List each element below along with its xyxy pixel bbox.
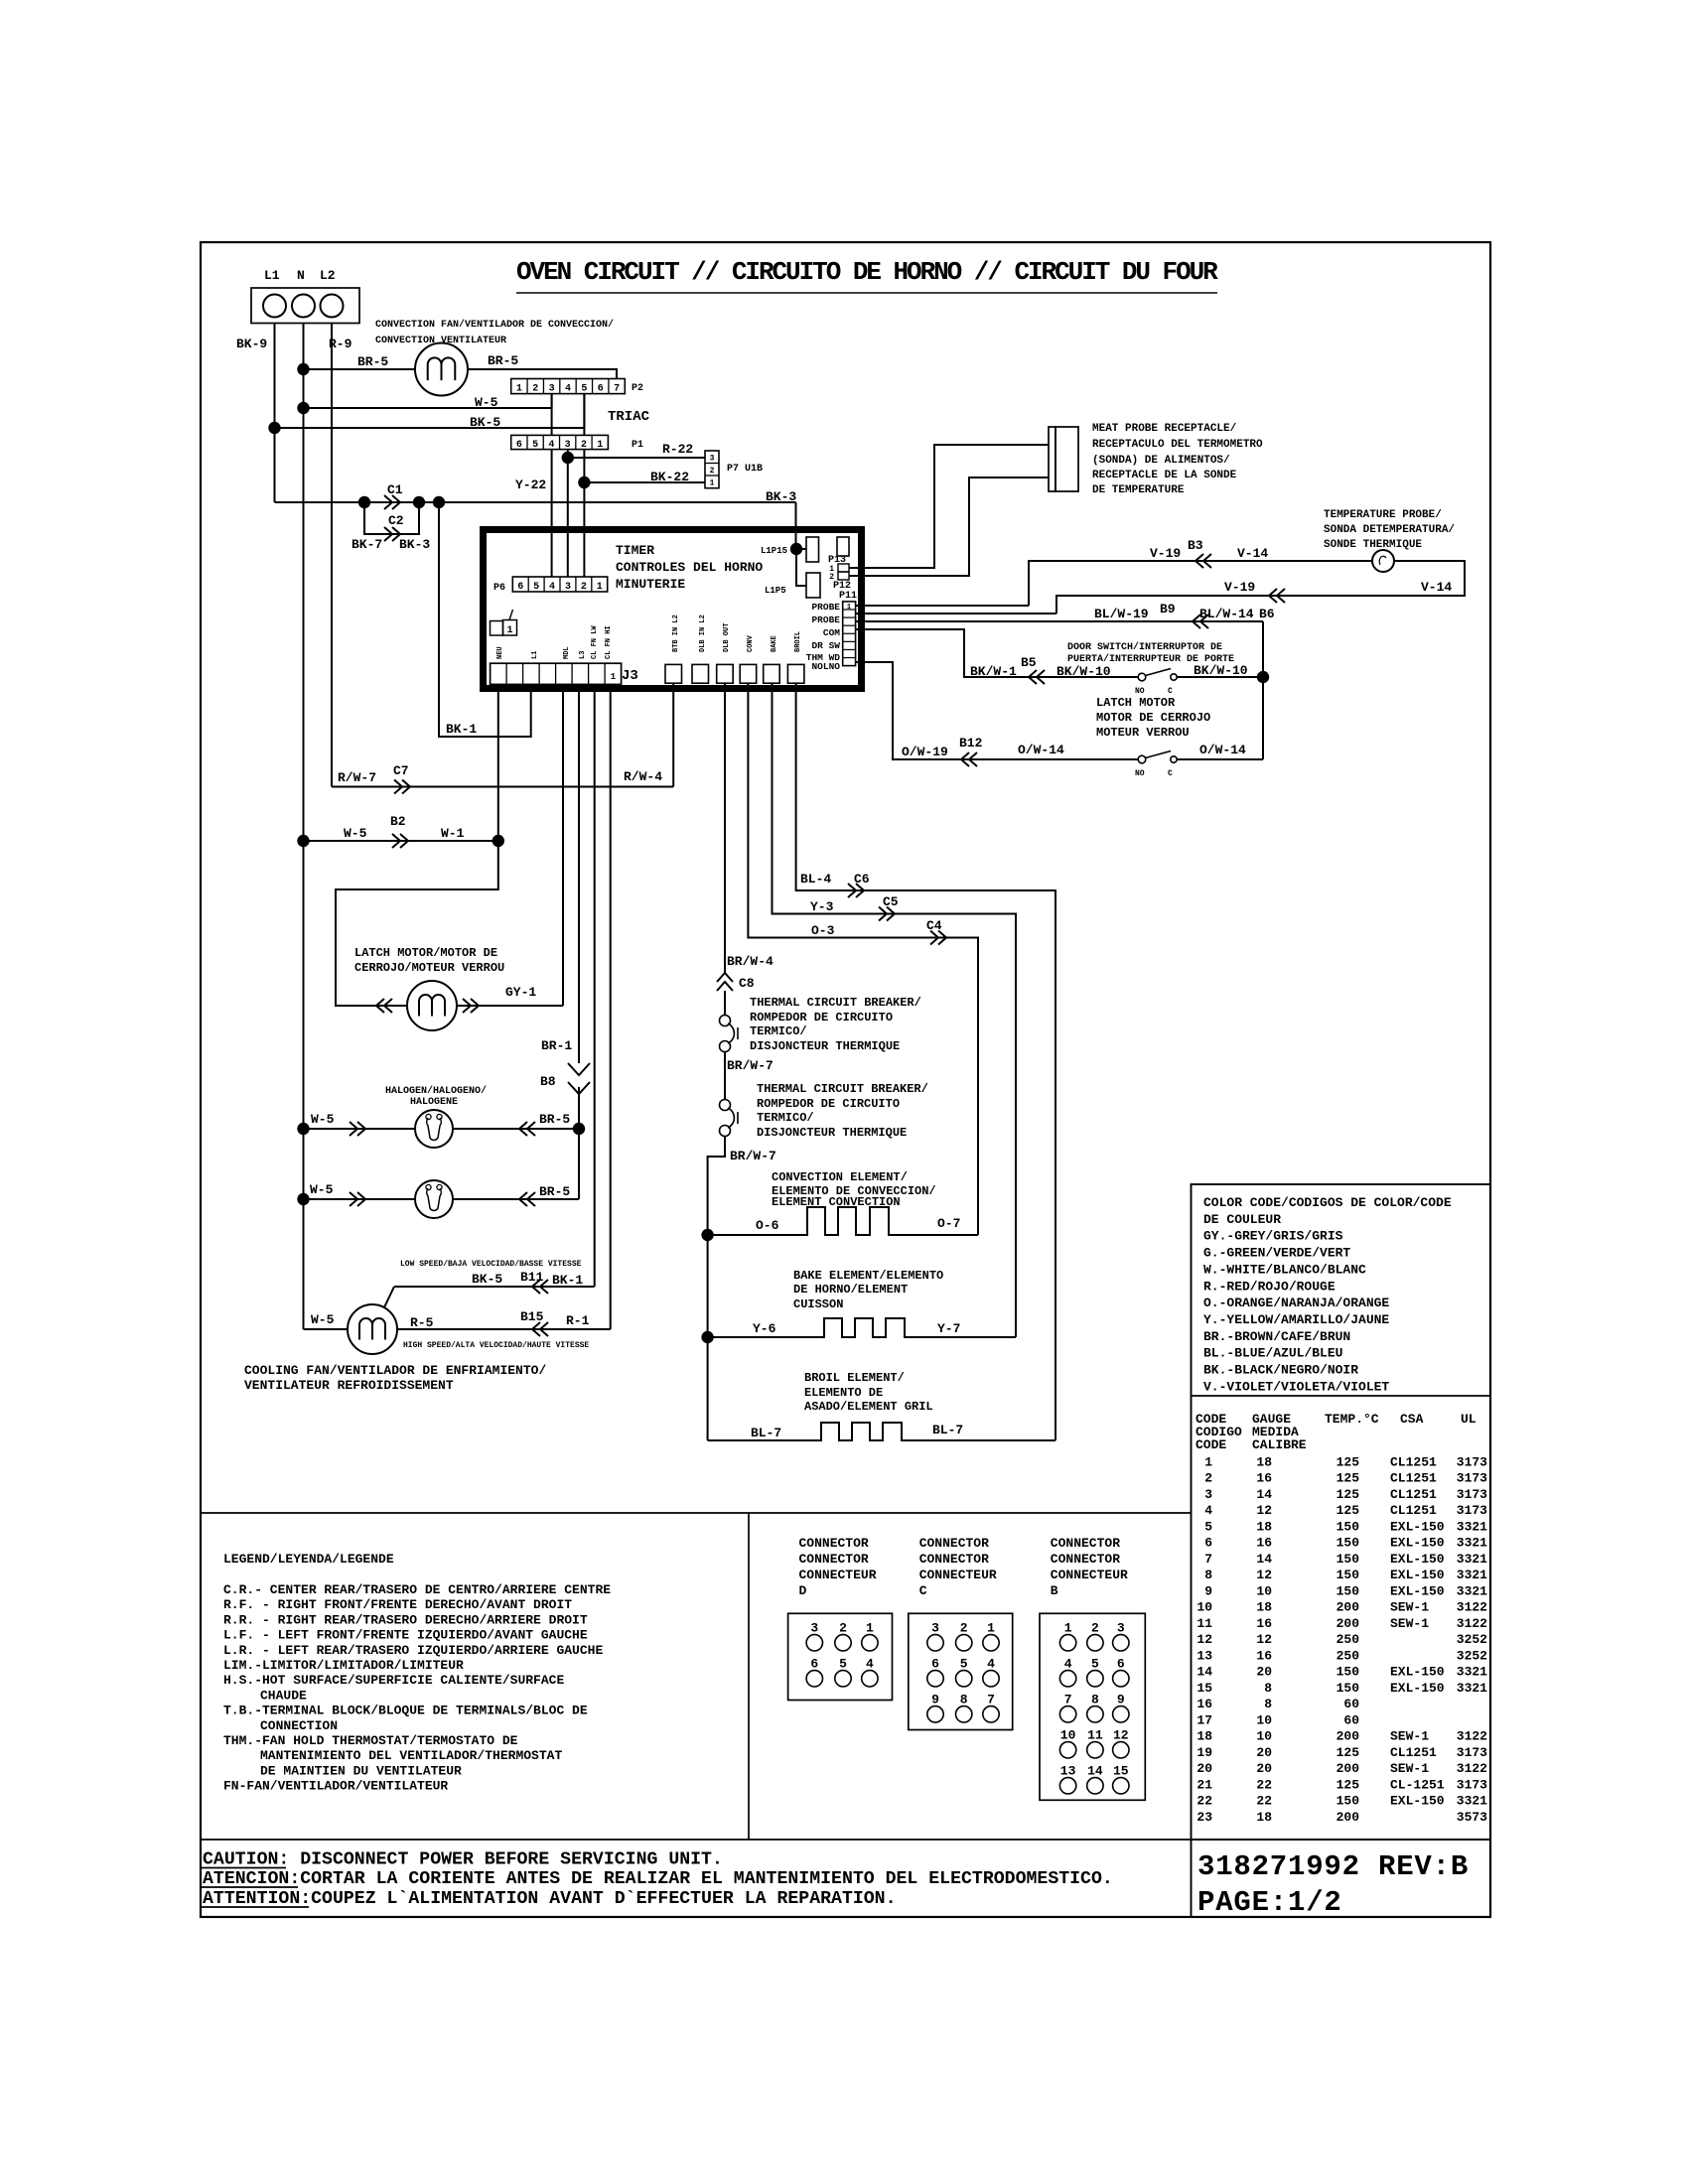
svg-text:ELEMENTO DE: ELEMENTO DE (804, 1386, 883, 1400)
broil element (708, 1423, 1055, 1440)
svg-text:10: 10 (1196, 1600, 1212, 1615)
svg-text:W-5: W-5 (311, 1112, 335, 1127)
color-code and table box (1192, 1184, 1491, 1840)
svg-text:3321: 3321 (1457, 1536, 1487, 1551)
svg-text:R.-RED/ROJO/ROUGE: R.-RED/ROJO/ROUGE (1203, 1279, 1336, 1294)
svg-text:8: 8 (1264, 1697, 1272, 1711)
svg-text:O/W-14: O/W-14 (1018, 743, 1064, 757)
svg-text:6: 6 (516, 440, 522, 451)
wire BK-3 horizontal (275, 501, 796, 503)
wire J3 pin1 W-1 vertical (497, 684, 499, 841)
wire P12 pin1 to meat probe (849, 445, 1049, 568)
svg-text:1: 1 (710, 479, 715, 488)
svg-text:BK-1: BK-1 (446, 722, 477, 737)
timer box (484, 530, 862, 689)
svg-text:5: 5 (533, 582, 539, 593)
wire latch switch right (1177, 758, 1263, 760)
pin L1P5 box (806, 573, 820, 598)
svg-text:CONNECTOR: CONNECTOR (1051, 1536, 1120, 1551)
wire Y-6 to broil (707, 1337, 709, 1440)
svg-text:CL1251: CL1251 (1390, 1745, 1437, 1760)
node W-1 junction (492, 835, 504, 847)
svg-text:B11: B11 (520, 1270, 544, 1285)
svg-text:V-19: V-19 (1150, 546, 1181, 561)
connector C5 arrows (879, 907, 895, 921)
svg-text:SONDA DETEMPERATURA/: SONDA DETEMPERATURA/ (1324, 524, 1455, 536)
svg-text:6: 6 (931, 1656, 939, 1671)
svg-text:W-1: W-1 (441, 826, 465, 841)
svg-text:14: 14 (1256, 1552, 1272, 1567)
svg-text:318271992 REV:B: 318271992 REV:B (1197, 1850, 1469, 1883)
svg-text:22: 22 (1256, 1794, 1272, 1809)
svg-text:12: 12 (1113, 1727, 1129, 1742)
svg-text:W-5: W-5 (475, 395, 498, 410)
connector C pinout (909, 1613, 1013, 1729)
connector lamp1 right arrows (519, 1122, 535, 1136)
svg-text:3: 3 (549, 384, 555, 395)
svg-text:3: 3 (931, 1620, 939, 1635)
svg-text:6: 6 (1117, 1656, 1125, 1671)
wire W-5 cooling fan (304, 1328, 349, 1330)
color-code/table divider (1192, 1395, 1491, 1397)
wire B8 lower vertical (578, 1087, 580, 1199)
connector J3 (491, 663, 622, 684)
svg-text:3: 3 (1117, 1620, 1125, 1635)
svg-text:4: 4 (1064, 1656, 1072, 1671)
svg-text:11: 11 (1196, 1616, 1212, 1631)
cooling fan motor (348, 1304, 397, 1354)
svg-text:BROIL ELEMENT/: BROIL ELEMENT/ (804, 1371, 905, 1385)
wire P1 pin4 to P6 pin4 (551, 450, 553, 577)
svg-text:EXL-150: EXL-150 (1390, 1552, 1445, 1567)
svg-text:3321: 3321 (1457, 1794, 1487, 1809)
svg-text:18: 18 (1256, 1455, 1272, 1470)
svg-text:EXL-150: EXL-150 (1390, 1568, 1445, 1582)
connector P2 (511, 379, 626, 394)
svg-text:14: 14 (1196, 1665, 1212, 1680)
connector C2 arrows (384, 527, 400, 541)
svg-text:BK-1: BK-1 (552, 1273, 583, 1288)
svg-text:5: 5 (581, 384, 587, 395)
svg-text:10: 10 (1256, 1583, 1272, 1598)
svg-text:BK-7: BK-7 (352, 537, 382, 552)
wire Y-3 line (773, 683, 1017, 1337)
svg-text:2: 2 (839, 1620, 847, 1635)
svg-text:L1P5: L1P5 (765, 586, 786, 596)
wire R/W-4 vertical (672, 683, 674, 786)
svg-text:16: 16 (1256, 1648, 1272, 1663)
svg-text:22: 22 (1196, 1794, 1212, 1809)
svg-text:O-6: O-6 (756, 1218, 779, 1233)
pin P12 boxes (838, 564, 849, 572)
wire P12 pin2 to meat probe (849, 478, 1049, 576)
connector latch left arrows (376, 999, 392, 1013)
svg-text:C1: C1 (387, 482, 403, 497)
svg-text:N: N (297, 268, 305, 283)
svg-text:9: 9 (1204, 1583, 1212, 1598)
svg-text:CONNECTION: CONNECTION (260, 1718, 338, 1733)
svg-text:2: 2 (532, 384, 538, 395)
svg-text:BTB IN L2: BTB IN L2 (672, 614, 680, 652)
svg-text:6: 6 (598, 384, 604, 395)
svg-text:BK/W-10: BK/W-10 (1194, 663, 1248, 678)
svg-text:150: 150 (1336, 1583, 1360, 1598)
svg-text:EXL-150: EXL-150 (1390, 1794, 1445, 1809)
connector B15 arrows (532, 1322, 548, 1336)
wire O-3 line (748, 683, 978, 1235)
svg-text:L1P15: L1P15 (761, 546, 787, 556)
small connector with pin 1 (491, 621, 503, 636)
svg-text:200: 200 (1336, 1616, 1360, 1631)
connector P7 U1B (705, 451, 719, 488)
svg-text:2: 2 (581, 440, 587, 451)
svg-text:BK-3: BK-3 (399, 537, 430, 552)
svg-text:BR/W-7: BR/W-7 (727, 1058, 774, 1073)
svg-text:L.R. - LEFT REAR/TRASERO IZQUI: L.R. - LEFT REAR/TRASERO IZQUIERDO/ARRIE… (223, 1643, 603, 1658)
svg-text:BL.-BLUE/AZUL/BLEU: BL.-BLUE/AZUL/BLEU (1203, 1346, 1342, 1361)
svg-text:4: 4 (549, 582, 555, 593)
svg-text:BR-5: BR-5 (539, 1184, 570, 1199)
svg-text:G.-GREEN/VERDE/VERT: G.-GREEN/VERDE/VERT (1203, 1246, 1350, 1261)
halogen lamp 1 (415, 1110, 453, 1148)
svg-text:P6: P6 (493, 583, 505, 594)
svg-text:3173: 3173 (1457, 1745, 1487, 1760)
svg-text:150: 150 (1336, 1552, 1360, 1567)
svg-text:CONVECTION FAN/VENTILADOR DE C: CONVECTION FAN/VENTILADOR DE CONVECCION/ (375, 319, 614, 331)
svg-text:W-5: W-5 (310, 1182, 334, 1197)
svg-text:12: 12 (1196, 1632, 1212, 1647)
svg-text:SEW-1: SEW-1 (1390, 1600, 1429, 1615)
svg-text:P11: P11 (839, 591, 857, 602)
svg-text:B2: B2 (390, 814, 406, 829)
svg-text:1: 1 (1064, 1620, 1072, 1635)
connector C7 arrows (394, 780, 410, 794)
terminal N circle (292, 295, 315, 318)
svg-text:12: 12 (1256, 1503, 1272, 1518)
svg-text:LATCH MOTOR/MOTOR DE: LATCH MOTOR/MOTOR DE (354, 946, 497, 960)
svg-text:BL/W-19: BL/W-19 (1094, 607, 1149, 621)
svg-text:W-5: W-5 (311, 1312, 335, 1327)
thermal circuit breaker 1 (720, 1016, 731, 1026)
wire probe to right edge (1056, 561, 1465, 614)
svg-text:OVEN CIRCUIT // CIRCUITO DE HO: OVEN CIRCUIT // CIRCUITO DE HORNO // CIR… (516, 257, 1218, 287)
svg-text:12: 12 (1256, 1568, 1272, 1582)
svg-text:3321: 3321 (1457, 1519, 1487, 1534)
connector C4 arrows (930, 931, 946, 945)
svg-text:C5: C5 (883, 894, 899, 909)
svg-text:L1: L1 (264, 268, 280, 283)
svg-text:9: 9 (1117, 1692, 1125, 1706)
connector P6 (512, 577, 607, 592)
connector latch right arrows (463, 999, 479, 1013)
divider legend/connector vertical (748, 1513, 750, 1840)
svg-text:HALOGEN/HALOGENO/: HALOGEN/HALOGENO/ (385, 1085, 487, 1097)
svg-text:CALIBRE: CALIBRE (1252, 1437, 1307, 1452)
svg-text:CHAUDE: CHAUDE (260, 1688, 307, 1703)
wire DR SW (855, 629, 1138, 677)
wire door switch to junction (1177, 676, 1263, 678)
svg-text:CONVECTION ELEMENT/: CONVECTION ELEMENT/ (772, 1170, 908, 1184)
svg-text:V.-VIOLET/VIOLETA/VIOLET: V.-VIOLET/VIOLETA/VIOLET (1203, 1379, 1389, 1394)
wire BK-1 low speed vertical (594, 684, 596, 1287)
wire to breaker1 (724, 991, 726, 1015)
svg-text:MOTEUR VERROU: MOTEUR VERROU (1096, 726, 1190, 740)
node lamp1 left junction (297, 1123, 309, 1135)
svg-text:W-5: W-5 (344, 826, 367, 841)
connector B5 arrows (1029, 670, 1045, 684)
svg-text:C8: C8 (739, 976, 755, 991)
svg-text:UL: UL (1461, 1412, 1477, 1427)
wire lamp2 left (304, 1198, 416, 1200)
connector B11 arrows (532, 1280, 548, 1294)
terminal L2 circle (321, 295, 344, 318)
node BK-3 junction (433, 496, 445, 508)
svg-text:3321: 3321 (1457, 1681, 1487, 1696)
terminal L1 circle (263, 295, 286, 318)
node L1P15 (790, 543, 802, 555)
wire lamp1 left (304, 1128, 416, 1130)
wire NOLNO to O/W line (855, 662, 1138, 759)
svg-text:TRIAC: TRIAC (608, 409, 650, 425)
svg-text:11: 11 (1087, 1727, 1103, 1742)
wire N vertical (303, 324, 305, 1330)
svg-text:B: B (1051, 1583, 1058, 1598)
svg-text:ATENCION:CORTAR LA CORIENTE AN: ATENCION:CORTAR LA CORIENTE ANTES DE REA… (203, 1869, 1113, 1889)
svg-text:(SONDA) DE ALIMENTOS/: (SONDA) DE ALIMENTOS/ (1092, 455, 1230, 467)
svg-text:14: 14 (1256, 1487, 1272, 1502)
svg-text:CL-1251: CL-1251 (1390, 1777, 1445, 1792)
svg-text:BR/W-4: BR/W-4 (727, 954, 774, 969)
svg-text:CSA: CSA (1400, 1412, 1424, 1427)
svg-text:2: 2 (581, 582, 587, 593)
node W-5 junction (297, 835, 309, 847)
wire low speed (394, 1286, 595, 1288)
svg-text:10: 10 (1256, 1712, 1272, 1727)
svg-text:CL FN LW: CL FN LW (591, 625, 599, 659)
svg-text:9: 9 (931, 1692, 939, 1706)
svg-text:10: 10 (1256, 1729, 1272, 1744)
svg-text:200: 200 (1336, 1729, 1360, 1744)
divider legend top (201, 1512, 1192, 1514)
svg-text:L3: L3 (579, 651, 587, 659)
svg-text:BK/W-1: BK/W-1 (970, 664, 1017, 679)
svg-text:60: 60 (1343, 1712, 1359, 1727)
wire probe line upper (1029, 561, 1372, 606)
svg-text:3252: 3252 (1457, 1648, 1487, 1663)
svg-text:CONVECTION VENTILATEUR: CONVECTION VENTILATEUR (375, 336, 506, 346)
svg-text:R.R. - RIGHT REAR/TRASERO DERE: R.R. - RIGHT REAR/TRASERO DERECHO/ARRIER… (223, 1612, 588, 1627)
svg-text:150: 150 (1336, 1568, 1360, 1582)
svg-text:TERMICO/: TERMICO/ (757, 1111, 814, 1125)
svg-text:TEMP.°C: TEMP.°C (1325, 1412, 1379, 1427)
connector C8 chevrons (717, 973, 733, 991)
svg-text:BK-5: BK-5 (470, 415, 500, 430)
svg-text:CONV: CONV (747, 634, 755, 652)
svg-text:3: 3 (565, 582, 571, 593)
svg-text:B12: B12 (959, 736, 983, 751)
svg-text:4: 4 (1204, 1503, 1212, 1518)
svg-text:CONNECTEUR: CONNECTEUR (1051, 1568, 1128, 1582)
svg-text:5: 5 (1091, 1656, 1099, 1671)
wire O-6 to bake (707, 1235, 709, 1337)
svg-text:CL FN HI: CL FN HI (605, 625, 613, 659)
svg-text:ATTENTION:COUPEZ L`ALIMENTATIO: ATTENTION:COUPEZ L`ALIMENTATION AVANT D`… (203, 1889, 897, 1909)
wire COM BL/W (855, 620, 1263, 622)
svg-text:RECEPTACULO DEL TERMOMETRO: RECEPTACULO DEL TERMOMETRO (1092, 439, 1263, 451)
svg-text:BL-7: BL-7 (751, 1426, 781, 1440)
wire R-22 to P7 pin3 (568, 457, 705, 459)
svg-text:150: 150 (1336, 1665, 1360, 1680)
svg-text:3: 3 (1204, 1487, 1212, 1502)
svg-text:CL1251: CL1251 (1390, 1487, 1437, 1502)
svg-text:MDL: MDL (563, 646, 571, 659)
svg-text:3122: 3122 (1457, 1761, 1487, 1776)
svg-text:MINUTERIE: MINUTERIE (616, 577, 685, 592)
svg-text:BAKE: BAKE (771, 635, 778, 652)
svg-text:BL-4: BL-4 (800, 872, 831, 887)
latch switch contacts (1138, 755, 1146, 763)
door switch contacts (1138, 673, 1146, 681)
svg-text:CERROJO/MOTEUR VERROU: CERROJO/MOTEUR VERROU (354, 961, 504, 975)
svg-text:R-1: R-1 (566, 1313, 590, 1328)
svg-text:1: 1 (506, 625, 512, 636)
svg-text:R.F. - RIGHT FRONT/FRENTE DERE: R.F. - RIGHT FRONT/FRENTE DERECHO/AVANT … (223, 1597, 572, 1612)
terminal block T.B. (251, 288, 359, 324)
meat probe receptacle (1049, 427, 1055, 491)
svg-text:BL/W-14: BL/W-14 (1199, 607, 1254, 621)
node lamp1 right junction (573, 1123, 585, 1135)
svg-text:ASADO/ELEMENT GRIL: ASADO/ELEMENT GRIL (804, 1400, 933, 1414)
wire BK-22 to P7 pin1 (584, 481, 705, 483)
svg-text:Y-22: Y-22 (515, 478, 546, 492)
svg-text:LATCH MOTOR: LATCH MOTOR (1096, 696, 1176, 710)
svg-text:R/W-7: R/W-7 (338, 770, 376, 785)
wire P1 pin3 to P6 pin3 (567, 450, 569, 577)
svg-text:NOLNO: NOLNO (811, 661, 840, 672)
svg-text:B3: B3 (1188, 538, 1203, 553)
node BR-5 junction on N (297, 363, 309, 375)
wire R-1 high speed vertical (610, 684, 612, 1329)
svg-text:EXL-150: EXL-150 (1390, 1536, 1445, 1551)
svg-text:RECEPTACLE DE LA SONDE: RECEPTACLE DE LA SONDE (1092, 470, 1237, 481)
svg-text:3122: 3122 (1457, 1600, 1487, 1615)
svg-text:CONNECTEUR: CONNECTEUR (799, 1568, 877, 1582)
connector B pinout (1040, 1613, 1145, 1800)
svg-text:DLB OUT: DLB OUT (723, 623, 731, 652)
svg-text:60: 60 (1343, 1697, 1359, 1711)
svg-text:CL1251: CL1251 (1390, 1455, 1437, 1470)
wire W-5 to P2 pin3 (304, 394, 552, 408)
pin L1P15 box (806, 537, 819, 562)
svg-text:SEW-1: SEW-1 (1390, 1729, 1429, 1744)
caution underlines (202, 1867, 286, 1869)
svg-text:DISJONCTEUR THERMIQUE: DISJONCTEUR THERMIQUE (757, 1126, 907, 1140)
svg-text:CONTROLES DEL HORNO: CONTROLES DEL HORNO (616, 560, 763, 575)
wire W-5 B2 W-1 (304, 840, 498, 842)
wire PROBE pin2 (855, 613, 1056, 614)
svg-text:DR SW: DR SW (811, 640, 840, 651)
thermal circuit breaker 2 (720, 1100, 731, 1111)
svg-text:T.B.-TERMINAL BLOCK/BLOQUE DE: T.B.-TERMINAL BLOCK/BLOQUE DE TERMINALS/… (223, 1704, 588, 1718)
connector lamp2 right arrows (519, 1192, 535, 1206)
svg-text:P2: P2 (632, 383, 643, 394)
svg-text:GY.-GREY/GRIS/GRIS: GY.-GREY/GRIS/GRIS (1203, 1229, 1343, 1244)
svg-text:C2: C2 (388, 513, 404, 528)
wire PROBE pin1 (855, 605, 1029, 607)
svg-text:CONNECTOR: CONNECTOR (799, 1536, 869, 1551)
node R-22 junction (562, 452, 574, 464)
svg-text:23: 23 (1196, 1810, 1212, 1825)
svg-text:EXL-150: EXL-150 (1390, 1583, 1445, 1598)
svg-text:DE HORNO/ELEMENT: DE HORNO/ELEMENT (793, 1283, 908, 1297)
svg-text:7: 7 (1064, 1692, 1072, 1706)
svg-text:MANTENIMIENTO DEL VENTILADOR/T: MANTENIMIENTO DEL VENTILADOR/THERMOSTAT (260, 1748, 562, 1763)
svg-text:16: 16 (1196, 1697, 1212, 1711)
svg-text:BK-22: BK-22 (650, 470, 689, 484)
svg-text:18: 18 (1256, 1810, 1272, 1825)
svg-text:ROMPEDOR DE CIRCUITO: ROMPEDOR DE CIRCUITO (750, 1011, 893, 1024)
svg-text:CONNECTOR: CONNECTOR (919, 1552, 989, 1567)
node door/latch junction (1257, 671, 1269, 683)
svg-text:18: 18 (1256, 1519, 1272, 1534)
svg-text:19: 19 (1196, 1745, 1212, 1760)
svg-text:COM: COM (823, 627, 840, 638)
latch motor (407, 981, 457, 1030)
wire BL-4 line (796, 683, 1055, 1440)
svg-text:200: 200 (1336, 1761, 1360, 1776)
svg-text:16: 16 (1256, 1536, 1272, 1551)
svg-text:8: 8 (960, 1692, 968, 1706)
node O-6 junction (701, 1229, 713, 1241)
convection element (708, 1207, 978, 1235)
convection fan motor (415, 343, 468, 396)
svg-text:2: 2 (1204, 1471, 1212, 1486)
svg-text:C: C (1168, 687, 1173, 696)
svg-text:MOTOR DE CERROJO: MOTOR DE CERROJO (1096, 711, 1210, 725)
svg-text:1: 1 (1204, 1455, 1212, 1470)
svg-text:NO: NO (1135, 769, 1145, 778)
svg-text:THERMAL CIRCUIT BREAKER/: THERMAL CIRCUIT BREAKER/ (750, 996, 921, 1010)
wire BR/W-4 upper (724, 683, 726, 973)
svg-text:CONNECTOR: CONNECTOR (919, 1536, 989, 1551)
wire latch motor loop (336, 841, 498, 1006)
svg-text:3173: 3173 (1457, 1471, 1487, 1486)
divider caution top (201, 1839, 1490, 1841)
svg-text:B8: B8 (540, 1074, 556, 1089)
svg-text:18: 18 (1196, 1729, 1212, 1744)
svg-text:PROBE: PROBE (811, 602, 840, 613)
svg-text:O.-ORANGE/NARANJA/ORANGE: O.-ORANGE/NARANJA/ORANGE (1203, 1296, 1389, 1310)
svg-text:Y-7: Y-7 (937, 1321, 960, 1336)
svg-text:3122: 3122 (1457, 1729, 1487, 1744)
title block box (1191, 1840, 1193, 1917)
svg-text:7: 7 (987, 1692, 995, 1706)
wire C2 bypass (364, 502, 419, 534)
svg-text:3173: 3173 (1457, 1777, 1487, 1792)
svg-text:BL-7: BL-7 (932, 1423, 963, 1437)
svg-text:1: 1 (597, 440, 603, 451)
svg-text:COLOR CODE/CODIGOS DE COLOR/CO: COLOR CODE/CODIGOS DE COLOR/CODE (1203, 1195, 1452, 1210)
svg-text:Y-3: Y-3 (810, 899, 834, 914)
svg-text:LIM.-LIMITOR/LIMITADOR/LIMITEU: LIM.-LIMITOR/LIMITADOR/LIMITEUR (223, 1658, 464, 1673)
svg-text:BK-3: BK-3 (766, 489, 796, 504)
node W-5 junction on N (297, 402, 309, 414)
connector D pinout (788, 1613, 893, 1700)
svg-text:BK-9: BK-9 (236, 337, 267, 351)
svg-text:8: 8 (1204, 1568, 1212, 1582)
svg-text:CL1251: CL1251 (1390, 1503, 1437, 1518)
svg-text:150: 150 (1336, 1536, 1360, 1551)
